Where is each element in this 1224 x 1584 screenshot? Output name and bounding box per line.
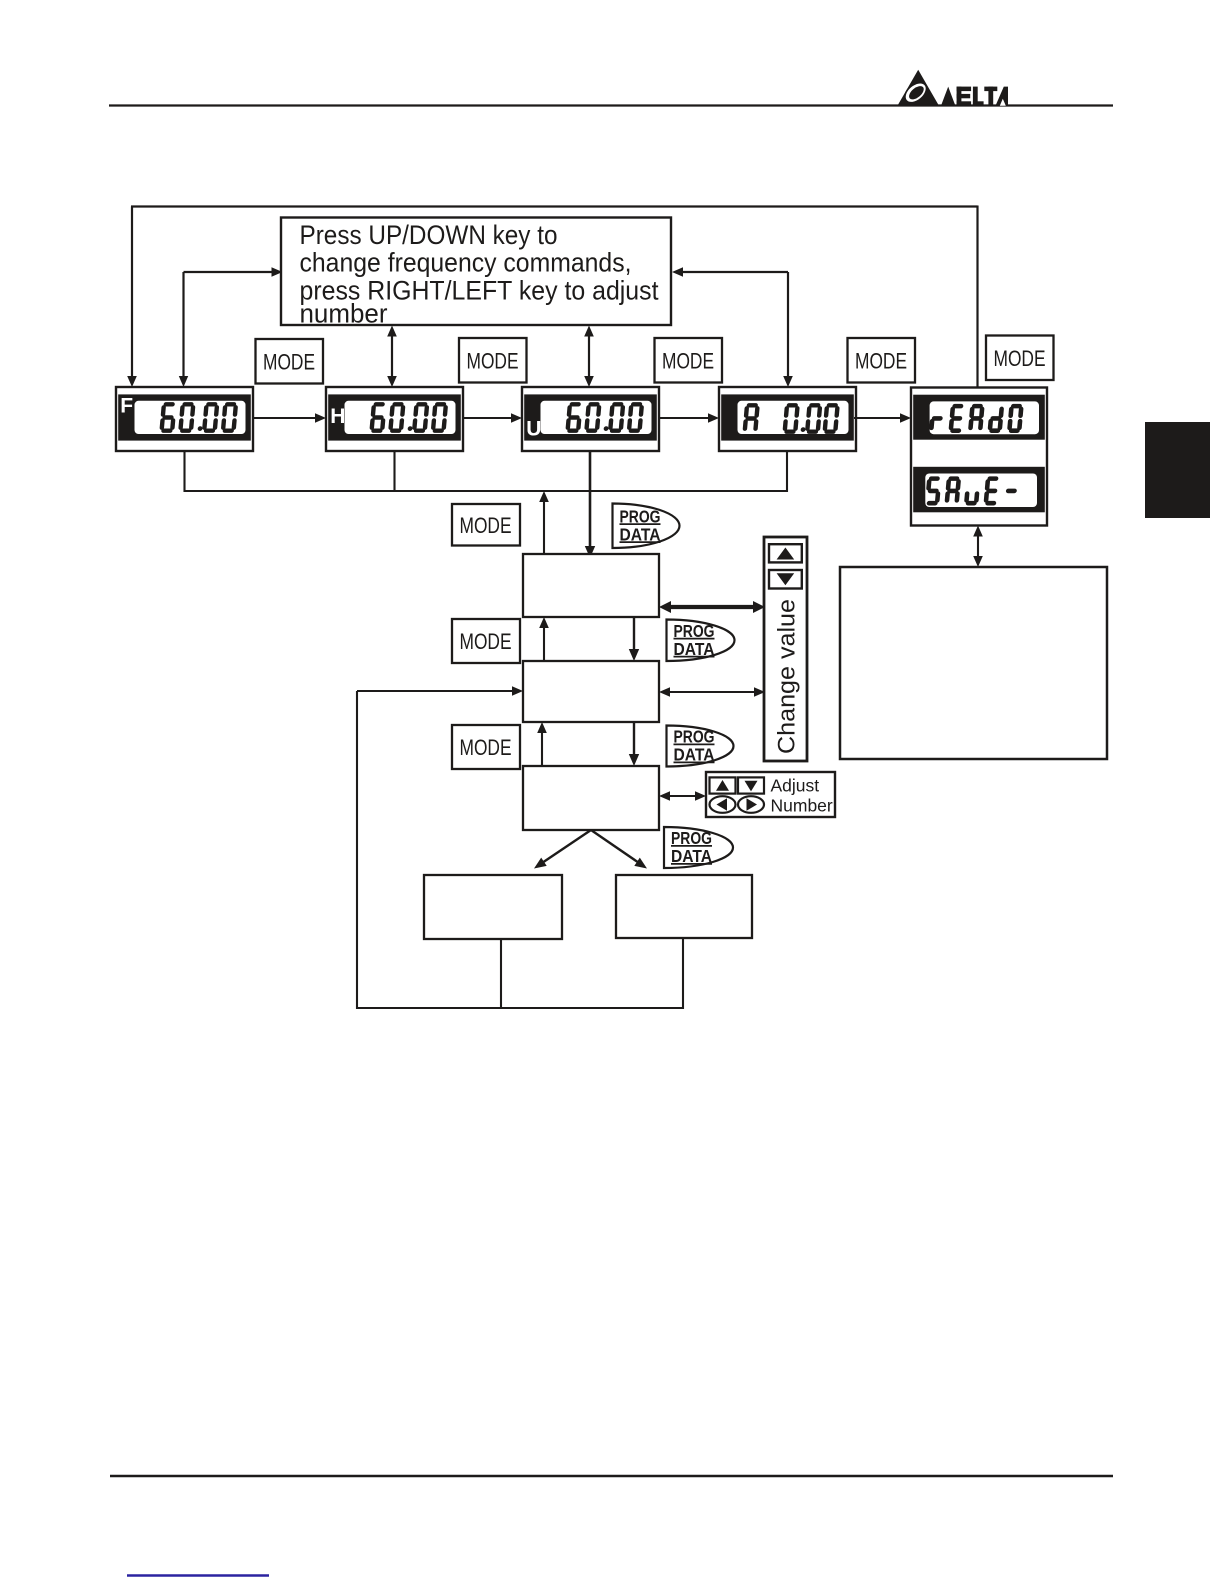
svg-text:MODE: MODE xyxy=(855,348,907,373)
MODE box 1 xyxy=(256,339,324,384)
wire bottom-right box down xyxy=(682,938,684,1009)
footer blue link line xyxy=(127,1574,269,1577)
display H 60.00 xyxy=(326,387,463,451)
thick double arrow box1 to change value xyxy=(659,601,765,613)
wire from text box right side down to A display xyxy=(672,267,793,387)
Delta logo xyxy=(898,70,1008,107)
arrow H to U xyxy=(463,413,522,423)
svg-text:DATA: DATA xyxy=(620,524,661,544)
svg-text:DATA: DATA xyxy=(674,745,715,765)
Change value panel xyxy=(764,537,807,761)
bottom-right flow box xyxy=(616,875,752,938)
display rEAd0 / SAvE- xyxy=(911,388,1047,526)
flow box 2 xyxy=(523,661,659,722)
MODE box mid 2 xyxy=(452,619,520,663)
svg-text:U: U xyxy=(526,418,541,441)
MODE box mid 3 xyxy=(452,725,520,769)
wire bus up to A display xyxy=(786,451,788,492)
bottom bus wire xyxy=(356,1007,684,1009)
wire F display down to bus xyxy=(183,451,185,492)
svg-text:MODE: MODE xyxy=(994,346,1046,371)
Adjust Number panel xyxy=(706,772,835,817)
svg-text:Adjust: Adjust xyxy=(771,776,820,796)
svg-text:MODE: MODE xyxy=(467,348,519,373)
double arrow SAvE box to big box xyxy=(973,526,983,568)
svg-text:PROG: PROG xyxy=(674,727,715,747)
arrow box3 up to box2 xyxy=(537,722,547,766)
svg-text:PROG: PROG xyxy=(674,621,715,641)
arrow U to A xyxy=(658,413,719,423)
svg-text:Number: Number xyxy=(771,796,833,816)
flow box 3 xyxy=(523,766,659,830)
svg-text:PROG: PROG xyxy=(671,828,712,848)
svg-text:MODE: MODE xyxy=(460,513,512,538)
thin double arrow box2 to change value xyxy=(659,687,765,697)
arrow box2 down to box3 xyxy=(629,722,639,766)
MODE box 3 xyxy=(655,338,723,383)
svg-text:MODE: MODE xyxy=(460,735,512,760)
header rule xyxy=(109,104,1113,106)
arrow box1 up to bus xyxy=(539,491,549,558)
flow box 1 xyxy=(523,554,659,617)
MODE box 5 xyxy=(986,336,1054,381)
svg-text:F: F xyxy=(120,395,133,418)
svg-text:PROG: PROG xyxy=(620,506,661,526)
svg-text:Press UP/DOWN key to: Press UP/DOWN key to xyxy=(300,220,558,250)
PROG/DATA key 2 xyxy=(667,620,735,662)
wire bottom-left box down xyxy=(500,939,502,1009)
arrow box2 up to box1 xyxy=(539,617,549,661)
display A 0.00 xyxy=(719,387,856,451)
svg-text:MODE: MODE xyxy=(460,629,512,654)
MODE box mid 1 xyxy=(452,504,520,546)
wire H display down to bus xyxy=(393,451,395,492)
display U 60.00 xyxy=(522,387,659,451)
double arrow box3 to adjust panel xyxy=(659,791,706,801)
svg-text:MODE: MODE xyxy=(263,349,315,374)
svg-text:change frequency commands,: change frequency commands, xyxy=(300,248,632,278)
PROG/DATA key 1 xyxy=(613,504,680,549)
wire U display down into box1 xyxy=(585,451,595,558)
svg-text:number: number xyxy=(300,299,388,329)
svg-text:DATA: DATA xyxy=(671,846,712,866)
arrow F to H xyxy=(253,413,326,423)
MODE box 2 xyxy=(459,338,527,383)
arrow A to rEAd0 xyxy=(854,413,911,423)
svg-text:H: H xyxy=(330,405,345,428)
wire top feedback loop (F display to rEAd0 column) xyxy=(127,206,977,388)
page side black tab xyxy=(1145,422,1210,518)
double arrow text box to U display xyxy=(584,326,594,388)
PROG/DATA key 3 xyxy=(667,726,734,767)
MODE box 4 xyxy=(848,338,916,383)
feedback wire up to box2 xyxy=(357,686,523,1009)
svg-text:DATA: DATA xyxy=(674,639,715,659)
bus wire under displays xyxy=(184,490,789,492)
diagonal arrow box3 to bottom-left box xyxy=(534,830,591,869)
svg-text:Change value: Change value xyxy=(774,599,801,754)
PROG/DATA key 4 xyxy=(664,827,733,868)
bottom-left flow box xyxy=(424,875,562,939)
arrow box1 down to box2 xyxy=(629,617,639,661)
big result box xyxy=(840,567,1107,759)
double arrow text box to H display xyxy=(387,326,397,388)
display F 60.00 xyxy=(116,387,253,451)
instruction text box xyxy=(281,218,671,329)
footer rule xyxy=(110,1475,1113,1478)
svg-text:MODE: MODE xyxy=(662,348,714,373)
diagonal arrow box3 to bottom-right box xyxy=(591,830,647,869)
wire second loop into text box and F display xyxy=(179,267,283,387)
